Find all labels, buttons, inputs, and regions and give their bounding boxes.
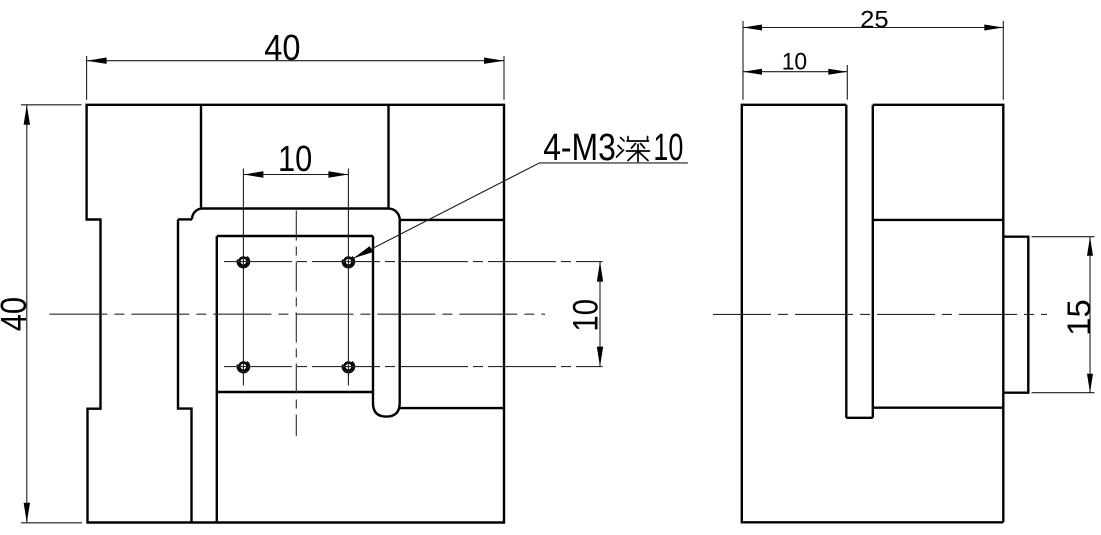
side view horizontal centerline — [713, 313, 1047, 315]
svg-text:10: 10 — [653, 127, 683, 169]
svg-text:40: 40 — [0, 297, 34, 331]
hole column centerline left / ext line — [242, 169, 244, 386]
dim 25: extension lines — [743, 21, 1003, 100]
hole row centerline top — [224, 261, 603, 263]
front view outer outline — [87, 105, 504, 523]
side view slot left wall — [845, 105, 847, 418]
relief slot U outline — [373, 220, 400, 417]
boss top edge — [201, 207, 389, 209]
dim 10 side: extension line right — [846, 65, 848, 100]
svg-text:4-M3: 4-M3 — [543, 127, 616, 169]
inner vertical through bottom — [216, 236, 218, 523]
side view bottom step line y=408 — [873, 407, 1004, 409]
side view boss protrusion — [1003, 237, 1028, 393]
tapped hole M3 at (243.4,366.6) — [239, 363, 247, 371]
side view slot right wall — [872, 105, 874, 418]
side view step line y=220 — [873, 219, 1004, 221]
right step top edge — [400, 219, 504, 221]
leader line to tapped hole — [354, 163, 688, 258]
dim 40 left: extension lines — [21, 105, 82, 523]
plate left edge — [178, 219, 192, 522]
dim 15: dimension line — [1089, 237, 1091, 393]
dim 40 top: extension lines — [87, 56, 504, 100]
hole row centerline bottom — [224, 366, 603, 368]
svg-text:10: 10 — [567, 299, 606, 332]
dim 10 front right: dimension line — [599, 262, 601, 367]
svg-text:40: 40 — [264, 27, 300, 68]
side view slot bottom — [846, 417, 873, 419]
hole column centerline right / ext line — [347, 169, 349, 386]
horizontal centerline front view — [49, 313, 545, 315]
svg-text:15: 15 — [1061, 299, 1097, 336]
vertical centerline front view — [295, 211, 297, 437]
right step bottom edge — [400, 407, 504, 409]
tapped hole M3 at (348.4,261.6) — [344, 258, 352, 266]
plate top edge left stub — [178, 218, 192, 220]
dim 25: dimension line — [743, 27, 1003, 29]
dim 15: extension lines — [1032, 237, 1095, 393]
svg-text:25: 25 — [860, 6, 889, 33]
svg-text:10: 10 — [278, 138, 312, 179]
dim 40 top: dimension line — [87, 60, 504, 62]
hole square top edge — [217, 235, 373, 237]
side view right block top and right edge — [873, 105, 1004, 523]
dim 10 side: dimension line — [743, 71, 847, 73]
hole square bottom edge — [217, 391, 373, 393]
leader text CJK shen (depth) hand-drawn — [617, 137, 650, 162]
boss right fillet arc — [388, 209, 399, 220]
dim 10 front top: dimension line — [243, 174, 348, 176]
tapped hole M3 at (243.4,261.6) — [239, 258, 247, 266]
front slot edge left vertical — [200, 105, 202, 209]
front slot edge right vertical — [387, 105, 389, 209]
boss left fillet arc — [192, 209, 201, 220]
tapped hole M3 at (348.4,366.6) — [344, 363, 352, 371]
dim 40 left: dimension line — [26, 105, 28, 523]
svg-text:10: 10 — [782, 49, 807, 76]
side view left block outline — [742, 105, 1004, 523]
